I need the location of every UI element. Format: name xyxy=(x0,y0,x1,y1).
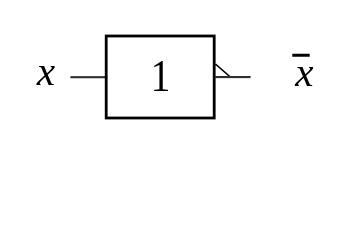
svg-text:1: 1 xyxy=(151,51,171,101)
svg-text:x: x xyxy=(294,49,313,95)
inverter U1 (IEC "1" box body) xyxy=(106,36,214,118)
wire: output from gate U1 to node x-bar xyxy=(215,76,251,78)
negation wedge at output of U1 xyxy=(216,64,231,77)
svg-text:x: x xyxy=(36,48,55,94)
overbar of node x-bar xyxy=(292,54,309,57)
wire: input from node x to gate U1 xyxy=(70,76,106,78)
